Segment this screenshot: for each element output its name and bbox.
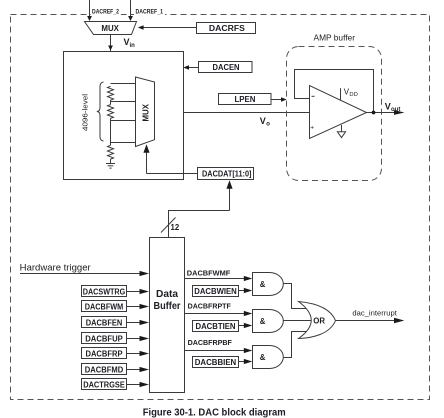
- svg-text:V: V: [260, 116, 266, 126]
- svg-text:o: o: [266, 121, 270, 127]
- svg-text:4096-level: 4096-level: [81, 94, 90, 131]
- svg-text:Hardware trigger: Hardware trigger: [20, 262, 91, 272]
- svg-text:DACBFWM: DACBFWM: [85, 302, 124, 311]
- svg-text:DACSWTRG: DACSWTRG: [83, 287, 126, 296]
- svg-text:DACBBIEN: DACBBIEN: [195, 358, 237, 367]
- svg-text:DACBFEN: DACBFEN: [86, 318, 123, 327]
- svg-text:Data: Data: [156, 289, 178, 300]
- svg-text:OR: OR: [313, 316, 325, 325]
- svg-text:12: 12: [171, 223, 180, 232]
- svg-text:DACRFS: DACRFS: [209, 24, 246, 33]
- svg-text:DACTRGSE: DACTRGSE: [83, 380, 125, 389]
- svg-text:in: in: [130, 43, 136, 49]
- svg-text:DACBFRPTF: DACBFRPTF: [188, 301, 232, 310]
- svg-text:DACREF_2: DACREF_2: [92, 8, 119, 15]
- svg-text:Buffer: Buffer: [154, 301, 181, 312]
- svg-text:out: out: [391, 107, 400, 113]
- svg-text:DACBFMD: DACBFMD: [85, 365, 124, 374]
- svg-text:DACDAT[11:0]: DACDAT[11:0]: [202, 170, 252, 179]
- svg-text:dac_interrupt: dac_interrupt: [352, 308, 397, 317]
- svg-text:DACEN: DACEN: [213, 63, 240, 72]
- svg-text:+: +: [310, 125, 314, 132]
- svg-text:MUX: MUX: [141, 103, 150, 121]
- svg-text:Figure 30-1. DAC block diagram: Figure 30-1. DAC block diagram: [143, 408, 286, 418]
- svg-text:&: &: [260, 353, 266, 362]
- svg-text:DACBFUP: DACBFUP: [85, 334, 123, 343]
- svg-text:AMP buffer: AMP buffer: [314, 33, 356, 43]
- svg-text:DACBFWMF: DACBFWMF: [187, 268, 231, 277]
- svg-text:DACBFRP: DACBFRP: [86, 349, 124, 358]
- svg-text:DACBFRPBF: DACBFRPBF: [188, 338, 233, 347]
- svg-text:LPEN: LPEN: [235, 95, 256, 104]
- svg-text:DACBTIEN: DACBTIEN: [196, 322, 236, 331]
- svg-text:DD: DD: [349, 92, 357, 98]
- svg-text:DACREF_1: DACREF_1: [136, 8, 164, 15]
- svg-text:&: &: [260, 317, 266, 326]
- svg-text:V: V: [385, 102, 391, 112]
- svg-text:DACBWIEN: DACBWIEN: [194, 287, 237, 296]
- svg-text:&: &: [260, 280, 266, 289]
- svg-text:MUX: MUX: [101, 24, 119, 33]
